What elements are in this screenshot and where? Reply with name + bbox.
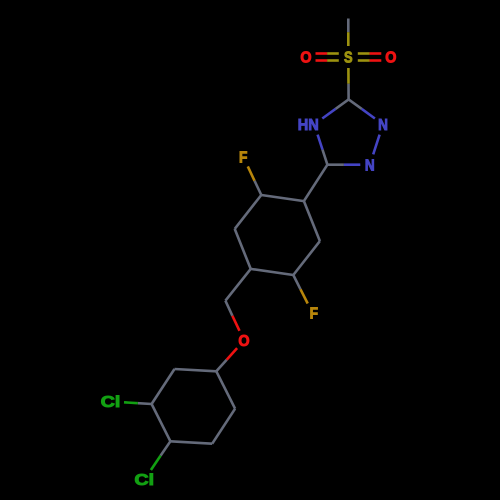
benzene ring 2 bond C2-C3 (152, 369, 175, 404)
svg-text:O: O (300, 50, 311, 67)
double bond S=O right (358, 54, 382, 61)
svg-text:F: F (310, 306, 319, 323)
svg-text:S: S (344, 50, 353, 67)
bond N4-C5 (triazole) (318, 135, 328, 165)
svg-text:N: N (378, 117, 388, 134)
benzene ring 1 bond C5-C6 (293, 241, 320, 275)
bond C2-F top fluorine (248, 166, 261, 195)
benzene ring 1 bond C6-C1 (304, 201, 320, 241)
bond C3-N2 (triazole) (349, 99, 375, 118)
benzene ring 2 bond C4-C5 (170, 441, 212, 443)
svg-text:Cl: Cl (135, 472, 155, 489)
bond C3-N4 (triazole) (322, 99, 348, 118)
svg-text:F: F (239, 149, 248, 166)
bond N1-C5 (triazole) (327, 163, 360, 166)
svg-text:N: N (365, 157, 375, 174)
svg-text:Cl: Cl (101, 394, 121, 411)
bond C5-F bottom fluorine (293, 275, 307, 304)
benzene ring 1 bond C2-C3 (235, 195, 262, 229)
benzene ring 2 bond C3-C4 (152, 404, 171, 441)
bond CH2-O ether (225, 301, 239, 331)
benzene ring 1 bond C4-C5 (251, 269, 294, 275)
double bond S=O left (316, 54, 339, 61)
bond O-C1 ether to dichlorophenyl (216, 348, 237, 371)
bond N2-N1 (triazole) (373, 135, 379, 155)
svg-text:O: O (238, 333, 249, 350)
benzene ring 2 bond C1-C2 (175, 369, 217, 371)
benzene ring 1 bond C3-C4 (235, 229, 251, 269)
bond C3-Cl upper chlorine (124, 402, 152, 404)
svg-text:O: O (385, 50, 396, 67)
benzene ring 2 bond C5-C6 (212, 409, 235, 444)
bond C4-Cl lower chlorine (151, 441, 171, 470)
svg-text:HN: HN (298, 117, 319, 134)
benzene ring 2 bond C6-C1 (216, 371, 235, 408)
benzene ring 1 bond C1-C2 (261, 195, 304, 201)
bond S-C3 (sulfonyl to triazole) (347, 68, 350, 99)
bond CH3-S (methyl to sulfonyl) (347, 19, 350, 47)
bond C5-C1 (triazole to benzene) (304, 165, 328, 201)
bond C4-CH2 benzylic (225, 269, 250, 301)
